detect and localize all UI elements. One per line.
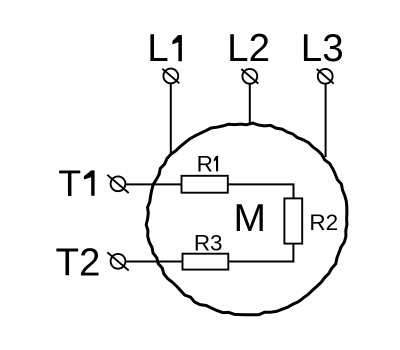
terminal T1 — [107, 175, 128, 193]
wire L1 to motor — [170, 83, 172, 153]
terminal L3 — [317, 69, 334, 84]
svg-text:L: L — [147, 27, 168, 70]
terminal T2 — [107, 252, 128, 270]
wire T1 to R1 — [125, 183, 181, 185]
svg-text:T2: T2 — [56, 242, 101, 285]
svg-text:R2: R2 — [309, 210, 338, 235]
wire L3 to motor — [325, 84, 327, 157]
wire T2 to R3 — [125, 261, 182, 263]
wire R1 to R2 top — [228, 184, 294, 198]
svg-text:R: R — [197, 151, 213, 176]
resistor R2 — [284, 198, 302, 243]
motor M1 outline — [146, 123, 347, 315]
terminal L1 — [162, 69, 179, 84]
terminal L2 — [241, 69, 258, 84]
wire R3 to R2 bottom — [228, 244, 293, 262]
svg-text:M: M — [234, 197, 267, 240]
svg-text:L2: L2 — [227, 27, 270, 70]
svg-text:R3: R3 — [194, 230, 223, 255]
svg-text:T: T — [58, 162, 81, 204]
svg-text:L3: L3 — [301, 27, 344, 70]
resistor R1 — [182, 176, 228, 193]
resistor R3 — [183, 254, 229, 270]
wire L2 to motor — [249, 84, 251, 125]
